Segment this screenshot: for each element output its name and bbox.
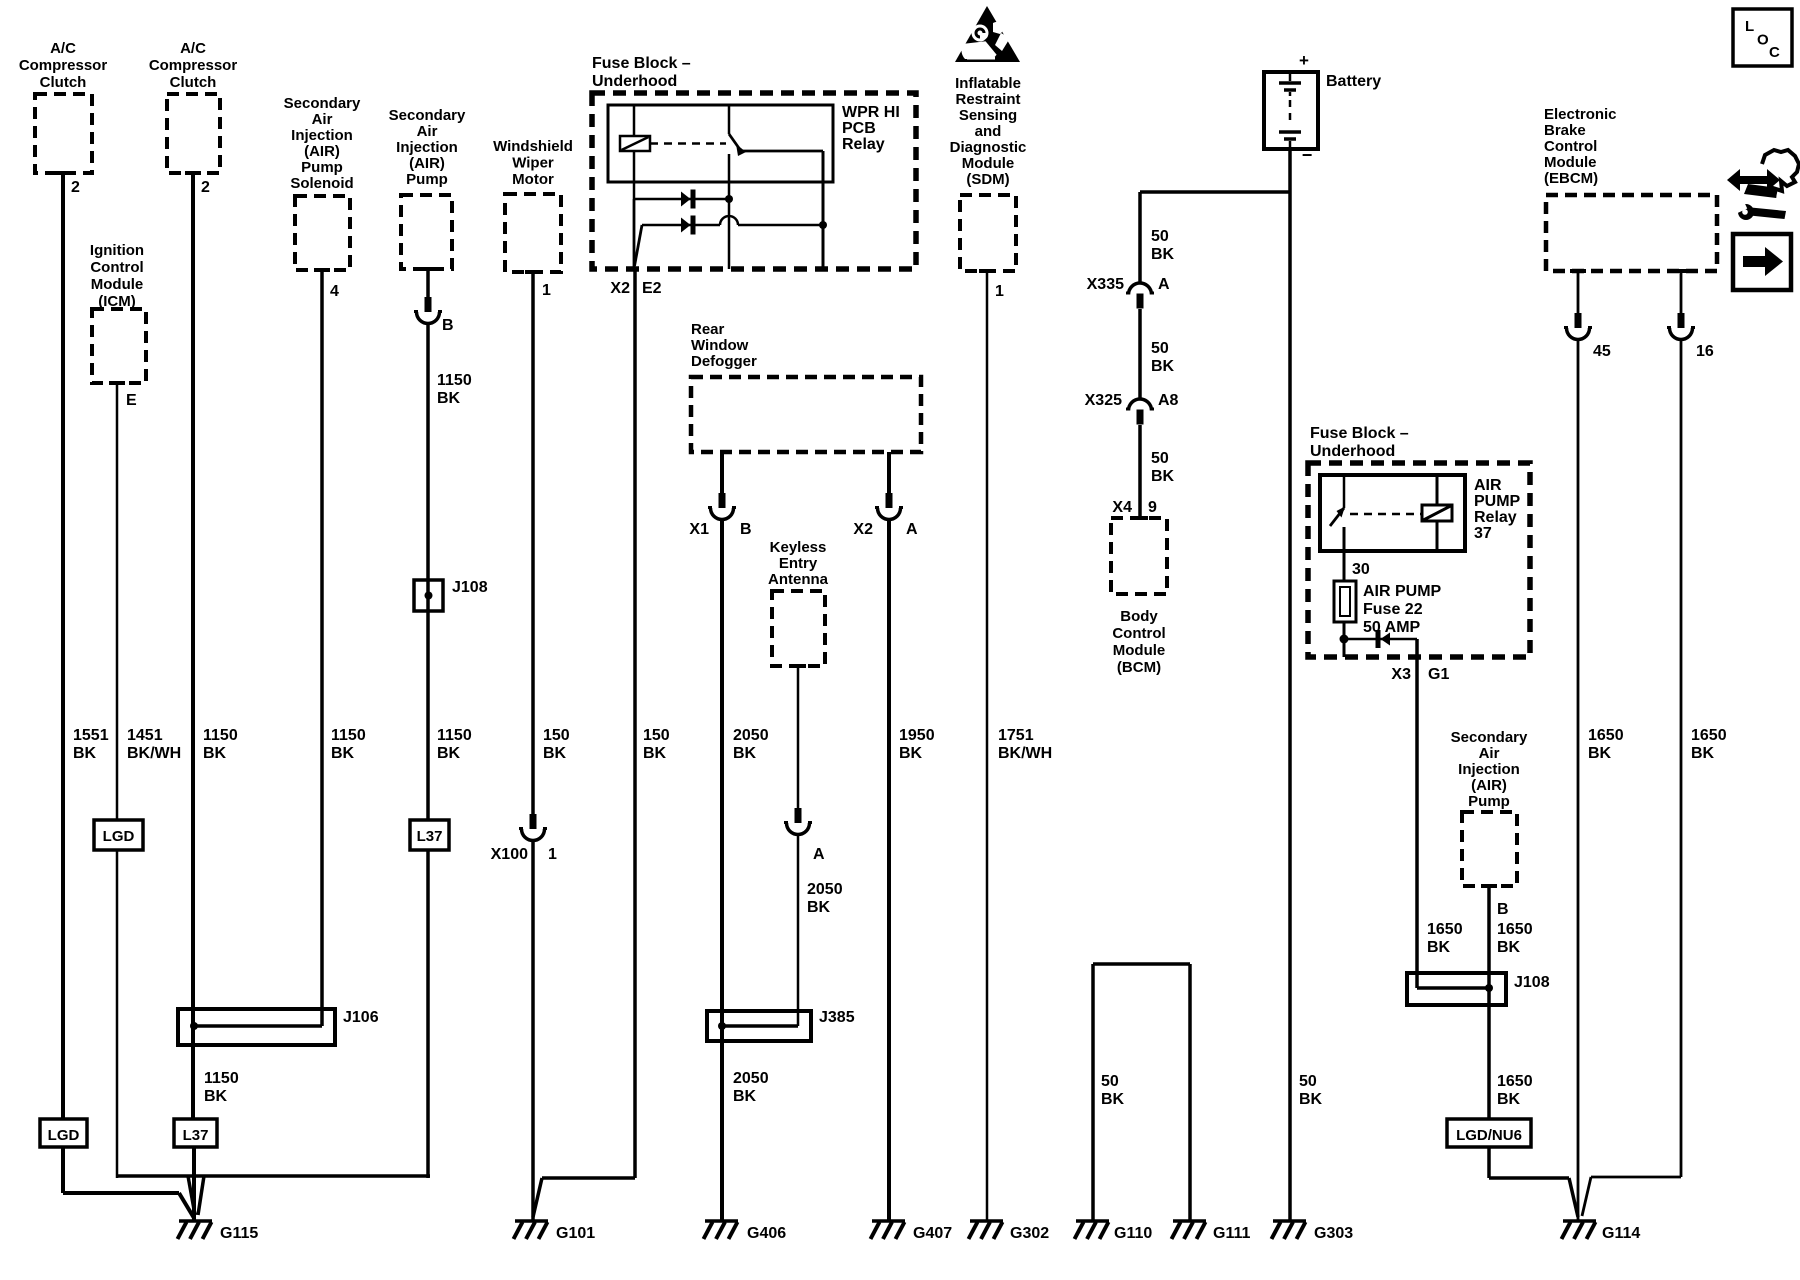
wire label 1650 BK (X3)	[1427, 921, 1463, 956]
svg-text:Secondary: Secondary	[284, 95, 361, 112]
secondary air injection pump 2 label	[1451, 729, 1528, 810]
SDM pin 1 terminal	[979, 269, 995, 273]
AIR pump relay switch output	[1343, 527, 1346, 581]
wire EBCM pin 16	[1680, 271, 1683, 313]
svg-text:1650: 1650	[1497, 1073, 1533, 1090]
svg-text:1150: 1150	[204, 1070, 239, 1087]
wire 2050 BK A to J385	[797, 835, 800, 1027]
svg-text:Air: Air	[417, 123, 438, 140]
svg-text:G406: G406	[747, 1225, 786, 1242]
wire label 1650 BK (45)	[1588, 727, 1624, 762]
svg-text:X100: X100	[491, 846, 528, 863]
ground G115	[178, 1221, 213, 1239]
svg-text:50: 50	[1101, 1073, 1119, 1090]
wire E2 bend	[634, 199, 642, 267]
diode D2 line left	[642, 224, 720, 227]
svg-text:Ignition: Ignition	[90, 242, 144, 259]
connector X2 label	[853, 521, 918, 538]
wire 1650 BK pump to J108	[1487, 886, 1491, 975]
AIR pump pin B terminal	[420, 267, 436, 271]
svg-text:Injection: Injection	[396, 139, 458, 156]
svg-text:9: 9	[1148, 499, 1157, 516]
svg-text:Electronic: Electronic	[1544, 106, 1617, 123]
WPR relay coil lead lower	[633, 151, 636, 199]
AIR pump relay coil lead upper	[1436, 475, 1439, 506]
wire label 1451 BK/WH	[127, 727, 181, 762]
inline connector pin 16	[1667, 313, 1695, 340]
svg-text:Module: Module	[1113, 642, 1166, 659]
svg-text:1451: 1451	[127, 727, 163, 744]
svg-text:G1: G1	[1428, 666, 1449, 683]
wire 1451 BK/WH ICM to LGD	[116, 383, 119, 821]
wire 2050 BK X1 to J385	[720, 520, 724, 1014]
secondary air injection pump	[401, 195, 452, 269]
fuse label AIR PUMP Fuse 22 50 AMP	[1363, 583, 1442, 636]
svg-text:G303: G303	[1314, 1225, 1353, 1242]
svg-text:A/C: A/C	[50, 40, 76, 57]
inline connector X2 pin A	[875, 493, 903, 520]
rear window defogger label	[691, 321, 757, 370]
WPR relay center pin wire	[728, 154, 731, 269]
svg-text:Fuse Block –: Fuse Block –	[592, 55, 691, 72]
svg-text:B: B	[1497, 901, 1509, 918]
inflatable restraint sensing and diagnostic module (SDM)	[960, 195, 1016, 271]
svg-text:2: 2	[201, 179, 210, 196]
connector pin label A	[813, 846, 825, 863]
svg-text:2: 2	[71, 179, 80, 196]
svg-text:LGD/NU6: LGD/NU6	[1456, 1127, 1522, 1144]
ground G303 label	[1314, 1225, 1353, 1242]
AIR pump relay actuation dashed link	[1350, 513, 1422, 516]
svg-text:2050: 2050	[733, 727, 769, 744]
AIR pump relay box	[1320, 475, 1465, 551]
svg-text:50: 50	[1151, 450, 1169, 467]
secondary air injection pump 2	[1462, 812, 1517, 886]
svg-text:Module: Module	[91, 276, 144, 293]
svg-text:PCB: PCB	[842, 120, 876, 137]
wire 1150 BK pump to J108	[426, 324, 430, 583]
AIR pump relay coil	[1422, 505, 1452, 521]
splice J108 (pump wire)	[414, 580, 443, 611]
rear window defogger	[691, 377, 921, 452]
svg-text:X325: X325	[1085, 392, 1122, 409]
windshield wiper motor label	[493, 138, 573, 188]
inline connector X100 pin 1	[519, 814, 547, 841]
wire L37 to G115 bus	[426, 850, 430, 1178]
svg-text:BK: BK	[1588, 745, 1612, 762]
svg-text:Windshield: Windshield	[493, 138, 573, 155]
wire battery branch to X335	[1140, 192, 1290, 283]
ground G110 label	[1114, 1225, 1152, 1242]
windshield wiper motor	[505, 194, 561, 272]
svg-text:A/C: A/C	[180, 40, 206, 57]
AIR pump 2 pin B terminal	[1481, 884, 1497, 888]
svg-text:X1: X1	[689, 521, 709, 538]
wire fuse to junction	[1343, 622, 1346, 639]
svg-text:Motor: Motor	[512, 171, 554, 188]
wire 50 BK X325 to X4	[1138, 425, 1142, 518]
ICM pin label E	[126, 392, 137, 409]
secondary air injection pump solenoid	[295, 196, 350, 270]
svg-text:Wiper: Wiper	[512, 155, 554, 172]
wire label 50 BK (jumper)	[1101, 1073, 1125, 1108]
wire label 50 BK (X335)	[1151, 228, 1175, 263]
inline connector pin 45	[1564, 313, 1592, 340]
svg-text:Window: Window	[691, 337, 749, 354]
node output junction	[819, 221, 827, 229]
diode D1 line	[634, 198, 729, 201]
inline connector X325 pin A8	[1126, 399, 1154, 425]
wire defogger X2	[887, 452, 891, 493]
svg-text:L: L	[1745, 18, 1754, 35]
svg-text:A: A	[906, 521, 918, 538]
AIR pump relay coil lead lower	[1436, 521, 1439, 551]
inflatable restraint SDM label	[950, 75, 1027, 188]
A/C compressor clutch 2	[167, 94, 220, 173]
svg-text:45: 45	[1593, 343, 1611, 360]
fuse block pin labels X2 E2	[610, 280, 661, 297]
BCM pin 9 terminal	[1132, 516, 1148, 520]
svg-text:Entry: Entry	[779, 555, 818, 572]
svg-text:BK: BK	[1151, 468, 1175, 485]
ground G115 label	[220, 1225, 258, 1242]
svg-text:G101: G101	[556, 1225, 595, 1242]
AIR pump relay switch fixed contact	[1343, 477, 1346, 508]
svg-text:LGD: LGD	[103, 828, 135, 845]
wire label 1650 BK (below J108)	[1497, 1073, 1533, 1108]
ground G303	[1272, 1221, 1307, 1239]
WPR relay coil lead upper	[633, 105, 636, 137]
wire diode to X3 pin	[1415, 639, 1419, 657]
svg-text:Underhood: Underhood	[592, 73, 677, 90]
svg-text:30: 30	[1352, 561, 1370, 578]
svg-text:Secondary: Secondary	[389, 107, 466, 124]
svg-text:1150: 1150	[331, 727, 366, 744]
svg-text:Sensing: Sensing	[959, 107, 1017, 124]
wire label 1150 BK (solenoid)	[331, 727, 366, 762]
wire X100 to ground G101	[531, 841, 535, 1221]
svg-text:G302: G302	[1010, 1225, 1049, 1242]
node fuse junction	[1340, 635, 1349, 644]
ignition control module label	[90, 242, 144, 310]
svg-text:Battery: Battery	[1326, 73, 1381, 90]
wire label 2050 BK (X1)	[733, 727, 769, 762]
svg-text:A: A	[813, 846, 825, 863]
wire pump to connector B	[426, 269, 430, 297]
svg-text:16: 16	[1696, 343, 1714, 360]
fuse 22 (AIR PUMP 50A)	[1334, 581, 1356, 622]
ground G407 label	[913, 1225, 952, 1242]
svg-text:Module: Module	[1544, 154, 1597, 171]
wire 50 BK X335 to X325	[1138, 309, 1142, 399]
svg-text:4: 4	[330, 283, 339, 300]
splice J108 (lower right)	[1407, 973, 1506, 1005]
wire J108 to L37	[426, 582, 430, 821]
battery internal plates	[1279, 72, 1301, 149]
wire 1150 BK solenoid to J106	[320, 270, 324, 1026]
ground G302	[969, 1221, 1004, 1239]
inline connector pin B	[414, 297, 442, 324]
ground G302 label	[1010, 1225, 1049, 1242]
wire 1751 BK/WH SDM to G302	[986, 271, 989, 1220]
ground G101 label	[556, 1225, 595, 1242]
svg-text:1650: 1650	[1588, 727, 1624, 744]
svg-text:Keyless: Keyless	[770, 539, 827, 556]
svg-text:B: B	[442, 317, 454, 334]
wire 1650 BK J108 to LGD/NU6	[1487, 975, 1491, 1120]
svg-text:BK: BK	[1497, 1091, 1521, 1108]
svg-text:Pump: Pump	[406, 171, 448, 188]
svg-text:Pump: Pump	[1468, 793, 1510, 810]
svg-text:1650: 1650	[1691, 727, 1727, 744]
svg-text:X335: X335	[1087, 276, 1124, 293]
svg-text:X2: X2	[610, 280, 630, 297]
svg-text:BK: BK	[1427, 939, 1451, 956]
diode D2 line right	[738, 224, 823, 227]
svg-text:Clutch: Clutch	[40, 74, 87, 91]
A/C clutch 2 pin 2 terminal	[185, 171, 201, 175]
svg-text:(AIR): (AIR)	[409, 155, 445, 172]
svg-text:G114: G114	[1602, 1225, 1640, 1242]
svg-text:Control: Control	[1112, 625, 1165, 642]
AIR pump relay switch blade	[1330, 507, 1345, 527]
fuse block underhood (WPR)	[592, 93, 916, 269]
wire 1150 BK J106 to L37	[191, 1011, 195, 1120]
wire label 50 BK (lower)	[1151, 450, 1175, 485]
svg-text:Restraint: Restraint	[955, 91, 1020, 108]
svg-text:PUMP: PUMP	[1474, 493, 1521, 510]
svg-text:Fuse Block –: Fuse Block –	[1310, 425, 1409, 442]
fuse block underhood 2 label	[1310, 425, 1409, 460]
svg-text:1650: 1650	[1427, 921, 1463, 938]
wire LGD/NU6 to G114	[1489, 1147, 1578, 1217]
wire LGD to G115 bus	[116, 850, 119, 1178]
WPR relay switch fixed contact	[728, 105, 731, 134]
svg-text:BK: BK	[643, 745, 667, 762]
svg-text:BK/WH: BK/WH	[127, 745, 181, 762]
splice J106	[178, 1009, 335, 1045]
svg-text:J106: J106	[343, 1009, 379, 1026]
svg-text:Air: Air	[312, 111, 333, 128]
wire L37 to ground G115	[192, 1147, 196, 1220]
svg-text:BK: BK	[437, 390, 461, 407]
svg-text:Clutch: Clutch	[170, 74, 217, 91]
keyless entry antenna	[772, 591, 825, 666]
ground G111 label	[1213, 1225, 1250, 1242]
svg-text:Control: Control	[1544, 138, 1597, 155]
svg-text:E: E	[126, 392, 137, 409]
connector pin label B	[442, 317, 454, 334]
A/C compressor clutch 2 label	[149, 40, 238, 91]
splice J385	[707, 1011, 811, 1041]
svg-text:Air: Air	[1479, 745, 1500, 762]
battery plus label	[1299, 51, 1309, 70]
wire label 1751 BK/WH	[998, 727, 1052, 762]
wire 1551 BK clutch1 to LGD	[61, 173, 65, 1120]
svg-text:50 AMP: 50 AMP	[1363, 619, 1421, 636]
solenoid pin 4 terminal	[314, 268, 330, 272]
svg-text:J108: J108	[452, 579, 488, 596]
svg-text:G115: G115	[220, 1225, 258, 1242]
svg-text:J385: J385	[819, 1009, 855, 1026]
wire 1950 BK X2 to G407	[887, 520, 891, 1221]
splice J106 label	[343, 1009, 379, 1026]
svg-text:Defogger: Defogger	[691, 353, 757, 370]
svg-text:A: A	[1158, 276, 1170, 293]
BCM pin labels X4 9	[1112, 499, 1157, 516]
svg-text:AIR PUMP: AIR PUMP	[1363, 583, 1442, 600]
fuse block underhood label	[592, 55, 691, 90]
connector X335 label	[1087, 276, 1170, 293]
wire label 1150 BK (below J106)	[204, 1070, 239, 1105]
svg-text:1950: 1950	[899, 727, 935, 744]
A/C clutch 1 pin label 2	[71, 179, 80, 196]
svg-text:BK: BK	[899, 745, 923, 762]
svg-text:50: 50	[1299, 1073, 1317, 1090]
ground G111	[1172, 1221, 1207, 1239]
A/C clutch 1 pin 2 terminal	[55, 171, 71, 175]
WPR relay switch blade	[729, 134, 746, 156]
svg-text:(EBCM): (EBCM)	[1544, 170, 1598, 187]
wire label 2050 BK (below J385)	[733, 1070, 769, 1105]
ground G406	[704, 1221, 739, 1239]
fuse block 2 pin labels X3 G1	[1391, 666, 1449, 683]
secondary air injection pump solenoid label	[284, 95, 361, 192]
keyless entry antenna label	[768, 539, 829, 588]
connector X1 label	[689, 521, 751, 538]
svg-text:BK: BK	[1151, 246, 1175, 263]
AIR PUMP relay label	[1474, 477, 1521, 542]
svg-text:150: 150	[643, 727, 670, 744]
inline connector X335 pin A	[1126, 283, 1154, 309]
wire 1650 BK 16 to G114	[1582, 340, 1681, 1217]
wiper motor pin label 1	[542, 282, 551, 299]
body control module (BCM)	[1111, 518, 1167, 594]
ICM pin E terminal	[109, 381, 125, 385]
svg-text:BK: BK	[1101, 1091, 1125, 1108]
svg-text:Solenoid: Solenoid	[290, 175, 353, 192]
svg-text:BK: BK	[807, 899, 831, 916]
svg-text:BK: BK	[437, 745, 461, 762]
svg-text:BK: BK	[331, 745, 355, 762]
svg-text:1150: 1150	[437, 372, 472, 389]
svg-text:1650: 1650	[1497, 921, 1533, 938]
svg-text:BK/WH: BK/WH	[998, 745, 1052, 762]
svg-text:G110: G110	[1114, 1225, 1152, 1242]
svg-text:Rear: Rear	[691, 321, 725, 338]
svg-text:50: 50	[1151, 228, 1169, 245]
splice label LGD/NU6	[1447, 1119, 1531, 1147]
svg-text:L37: L37	[183, 1127, 209, 1144]
svg-text:Relay: Relay	[1474, 509, 1517, 526]
WPR relay output pin wire	[822, 225, 825, 269]
svg-text:Relay: Relay	[842, 136, 885, 153]
svg-text:Brake: Brake	[1544, 122, 1586, 139]
wiper motor pin 1 terminal	[525, 270, 541, 274]
inline connector pin A	[784, 808, 812, 835]
svg-text:Injection: Injection	[291, 127, 353, 144]
wire label 1650 BK (16)	[1691, 727, 1727, 762]
connector X100 label	[491, 846, 557, 863]
wire 1650 BK 45 to G114	[1577, 340, 1580, 1221]
wire label 1650 BK (pump2)	[1497, 921, 1533, 956]
splice J108 lower label	[1514, 974, 1550, 991]
body control module label	[1112, 608, 1165, 676]
svg-text:X3: X3	[1391, 666, 1411, 683]
wire LGD to G115	[63, 1147, 194, 1218]
relay pin label 30	[1352, 561, 1370, 578]
svg-text:WPR HI: WPR HI	[842, 104, 900, 121]
node D1-center junction	[725, 195, 733, 203]
A/C compressor clutch 1	[35, 94, 92, 173]
ignition control module (ICM)	[92, 309, 146, 383]
svg-text:LGD: LGD	[48, 1127, 80, 1144]
ground G110	[1075, 1221, 1110, 1239]
svg-text:G111: G111	[1213, 1225, 1250, 1242]
ground bus wire G115	[117, 1176, 430, 1215]
diode D2	[681, 216, 696, 235]
ground G406 label	[747, 1225, 786, 1242]
svg-text:−: −	[1302, 145, 1313, 165]
wire label 50 BK (mid)	[1151, 340, 1175, 375]
wire label 50 BK (battery)	[1299, 1073, 1323, 1108]
svg-text:(AIR): (AIR)	[1471, 777, 1507, 794]
svg-text:150: 150	[543, 727, 570, 744]
svg-text:Inflatable: Inflatable	[955, 75, 1021, 92]
WPR relay switch output	[742, 151, 823, 225]
wire defogger X1	[720, 452, 724, 493]
connector pin label 45	[1593, 343, 1611, 360]
svg-text:BK: BK	[1497, 939, 1521, 956]
battery minus label	[1302, 145, 1313, 165]
svg-text:A8: A8	[1158, 392, 1179, 409]
svg-text:Underhood: Underhood	[1310, 443, 1395, 460]
electronic brake control module (EBCM)	[1546, 195, 1717, 271]
wire battery negative to G303	[1288, 149, 1292, 1220]
wire 150 BK wiper to X100	[531, 272, 535, 814]
WPR relay coil	[620, 136, 650, 151]
forward reference arrow box	[1733, 234, 1791, 290]
svg-text:Fuse 22: Fuse 22	[1363, 601, 1423, 618]
svg-text:X4: X4	[1112, 499, 1132, 516]
svg-text:(SDM): (SDM)	[966, 171, 1009, 188]
svg-text:and: and	[975, 123, 1002, 140]
svg-text:BK: BK	[204, 1088, 228, 1105]
svg-text:Secondary: Secondary	[1451, 729, 1528, 746]
svg-text:O: O	[1757, 32, 1769, 49]
svg-text:+: +	[1299, 51, 1309, 70]
svg-text:E2: E2	[642, 280, 662, 297]
wire label 1950 BK	[899, 727, 935, 762]
ground G114 label	[1602, 1225, 1640, 1242]
svg-text:J108: J108	[1514, 974, 1550, 991]
wire label 150 BK (E2)	[643, 727, 670, 762]
EBCM pin terminals	[1570, 269, 1689, 273]
splice J385 label	[819, 1009, 855, 1026]
fuse block underhood (AIR pump)	[1308, 463, 1530, 657]
inline connector X1 pin B	[708, 493, 736, 520]
wire label 1150 BK (clutch2)	[203, 727, 238, 762]
ground G407	[871, 1221, 906, 1239]
svg-text:G407: G407	[913, 1225, 952, 1242]
svg-text:37: 37	[1474, 525, 1492, 542]
A/C clutch 2 pin label 2	[201, 179, 210, 196]
ground G101	[514, 1221, 549, 1239]
AIR pump 2 pin label B	[1497, 901, 1509, 918]
svg-text:BK: BK	[1151, 358, 1175, 375]
WPR relay actuation dashed link	[650, 142, 726, 145]
electronic brake control module label	[1544, 106, 1617, 187]
